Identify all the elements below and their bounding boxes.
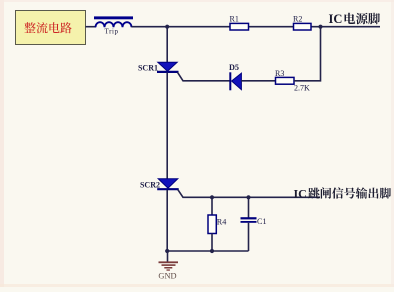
svg-text:GND: GND — [158, 272, 176, 281]
svg-text:Trip: Trip — [104, 28, 118, 36]
wire main vertical lower — [166, 190, 168, 251]
wire main vertical upper — [166, 27, 168, 63]
svg-text:IC: IC — [294, 187, 307, 201]
svg-text:R4: R4 — [217, 217, 227, 226]
svg-text:2.7K: 2.7K — [294, 84, 310, 93]
node junction top-left — [165, 25, 169, 29]
svg-text:R2: R2 — [293, 15, 302, 24]
node junction R4 bottom — [210, 249, 214, 253]
svg-text:SCR2: SCR2 — [140, 181, 160, 190]
svg-text:R1: R1 — [230, 15, 239, 24]
wire bottom rail — [167, 250, 248, 252]
svg-text:R3: R3 — [275, 69, 284, 78]
wire SCR2 gate rail — [178, 190, 320, 198]
rectifier block 整流电路 — [16, 11, 86, 45]
wire R3 to top rail — [294, 27, 321, 81]
wire — [241, 80, 275, 82]
svg-text:IC: IC — [329, 12, 343, 26]
resistor R4 — [211, 197, 213, 215]
inductor Trip — [94, 16, 133, 19]
node junction C1 top — [246, 195, 250, 199]
thyristor SCR1 — [157, 62, 179, 72]
resistor R2 — [294, 23, 312, 30]
diode D5 — [230, 72, 241, 90]
wire main vertical middle — [166, 73, 168, 180]
svg-text:SCR1: SCR1 — [138, 63, 158, 72]
wire SCR1 gate — [178, 72, 231, 81]
capacitor C1 — [248, 197, 250, 217]
resistor R1 — [230, 23, 249, 30]
ground GND — [158, 251, 178, 281]
node junction GND — [165, 249, 169, 253]
svg-text:C1: C1 — [257, 217, 267, 226]
node junction top-right — [318, 25, 322, 29]
wire top rail — [132, 26, 381, 28]
thyristor SCR2 — [157, 179, 179, 190]
node junction R4 top — [210, 195, 214, 199]
resistor R3 value 2.7K — [276, 77, 295, 84]
wire — [86, 26, 97, 28]
svg-text:D5: D5 — [229, 63, 239, 72]
